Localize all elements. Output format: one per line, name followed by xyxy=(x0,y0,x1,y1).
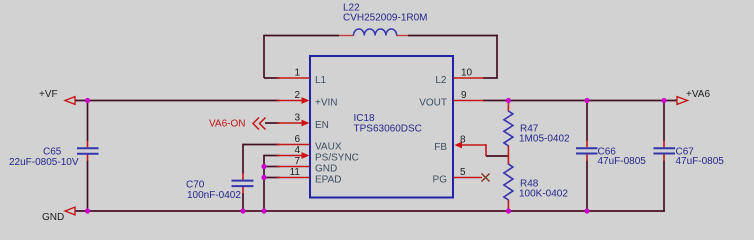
capacitor C70 top lead xyxy=(242,173,244,180)
svg-text:VAUX: VAUX xyxy=(315,142,342,153)
wire EN horizontal xyxy=(265,122,280,124)
junction C65 bottom xyxy=(85,208,90,213)
wire VAUX branch down to C70 xyxy=(242,144,244,174)
wire C67 branch top xyxy=(663,101,665,142)
junction C66 top xyxy=(584,98,589,103)
port +VA6 xyxy=(677,97,688,105)
node VA6-ON chevron xyxy=(253,118,266,130)
wire inductor right to corner xyxy=(408,35,498,37)
pin 8 jog vertical xyxy=(485,144,487,156)
pin 7 stub xyxy=(277,166,310,168)
wire C70 bottom to GND rail xyxy=(242,193,244,211)
resistor R48 top lead xyxy=(507,156,509,165)
capacitor C66 xyxy=(576,148,598,153)
svg-text:100nF-0402: 100nF-0402 xyxy=(187,190,241,201)
inductor L22 right lead xyxy=(396,35,408,37)
svg-text:GND: GND xyxy=(42,212,64,223)
wire L2 loop vertical xyxy=(496,35,498,78)
wire pin1 horizontal xyxy=(264,77,280,79)
junction C67 top xyxy=(661,98,666,103)
wire VAUX horizontal xyxy=(243,144,280,146)
pin 10 stub xyxy=(454,77,484,79)
pin 2 arrowhead xyxy=(302,97,310,104)
svg-text:L1: L1 xyxy=(315,75,327,86)
wire L2 loop to pin 10 xyxy=(483,77,498,79)
pin 6 stub xyxy=(277,144,310,146)
resistor R47 bottom lead xyxy=(507,146,509,157)
wire L1 loop top left horizontal xyxy=(263,35,339,37)
svg-text:L2: L2 xyxy=(435,75,447,86)
wire EPAD pin11 horizontal xyxy=(264,177,280,179)
svg-text:8: 8 xyxy=(460,135,466,146)
svg-text:6: 6 xyxy=(294,134,300,145)
junction R47 top xyxy=(506,98,511,103)
svg-text:1: 1 xyxy=(294,68,300,79)
svg-text:VA6-ON: VA6-ON xyxy=(209,119,246,130)
junction C70 bottom xyxy=(240,208,245,213)
svg-text:2: 2 xyxy=(294,90,300,101)
svg-text:1M05-0402: 1M05-0402 xyxy=(519,134,570,145)
wire VOUT rail xyxy=(483,100,677,102)
svg-text:4: 4 xyxy=(294,145,300,156)
svg-text:7: 7 xyxy=(294,156,300,167)
wire C67 branch bottom xyxy=(663,161,665,212)
junction PS branch GND xyxy=(261,208,266,213)
wire GND pin7 horizontal xyxy=(264,166,280,168)
svg-text:C70: C70 xyxy=(186,180,205,191)
resistor R47 xyxy=(504,111,513,146)
pin 2 stub xyxy=(277,100,303,102)
svg-text:47uF-0805: 47uF-0805 xyxy=(676,156,725,167)
svg-text:PS/SYNC: PS/SYNC xyxy=(315,153,359,164)
pin 3 arrowhead xyxy=(302,120,310,127)
capacitor C66 bottom lead xyxy=(586,154,588,161)
svg-text:CVH252009-1R0M: CVH252009-1R0M xyxy=(343,13,428,24)
svg-text:5: 5 xyxy=(460,167,466,178)
capacitor C66 top lead xyxy=(586,141,588,148)
pin 4 stub xyxy=(277,155,303,157)
svg-text:PG: PG xyxy=(433,175,448,186)
no-connect X on pin 5 xyxy=(482,174,490,182)
wire L1 loop vertical xyxy=(263,36,265,79)
wire PS/SYNC vertical to GND rail xyxy=(263,155,265,211)
inductor L22 xyxy=(354,29,397,36)
wire C66 branch top xyxy=(586,101,588,142)
junction C66 bottom xyxy=(584,208,589,213)
svg-text:9: 9 xyxy=(461,90,467,101)
svg-text:+VF: +VF xyxy=(39,89,58,100)
capacitor C65 top lead xyxy=(87,141,89,148)
svg-text:100K-0402: 100K-0402 xyxy=(519,189,568,200)
svg-text:22uF-0805-10V: 22uF-0805-10V xyxy=(9,157,79,168)
svg-text:+VA6: +VA6 xyxy=(686,89,710,100)
pin 8 stub xyxy=(461,144,486,146)
capacitor C67 bottom lead xyxy=(663,154,665,161)
pin 4 arrowhead xyxy=(302,152,310,159)
resistor R48 xyxy=(504,164,513,200)
junction R48 bottom xyxy=(506,208,511,213)
junction pin11 tap xyxy=(261,175,266,180)
svg-text:FB: FB xyxy=(434,142,447,153)
svg-text:GND: GND xyxy=(315,164,337,175)
pin 9 stub xyxy=(454,100,484,102)
capacitor C65 xyxy=(77,148,99,154)
junction C65 top xyxy=(85,98,90,103)
wire C65 branch bottom xyxy=(87,161,89,212)
op-amp U1 IC18 body xyxy=(310,56,453,198)
wire C65 branch top xyxy=(87,101,89,142)
wire PS/SYNC horizontal xyxy=(264,155,280,157)
svg-text:EPAD: EPAD xyxy=(315,175,342,186)
pin 8 arrowhead xyxy=(455,142,463,149)
capacitor C67 top lead xyxy=(663,141,665,148)
wire FB jog horizontal xyxy=(486,155,508,157)
wire +VF rail xyxy=(75,100,280,102)
pin 1 stub xyxy=(277,77,310,79)
inductor L22 left lead xyxy=(339,35,354,37)
svg-text:10: 10 xyxy=(461,68,473,79)
wire C66 branch bottom xyxy=(586,161,588,212)
svg-text:11: 11 xyxy=(290,167,301,178)
svg-text:VOUT: VOUT xyxy=(419,98,447,109)
wire GND rail xyxy=(75,210,665,212)
pin 11 stub xyxy=(277,177,310,179)
capacitor C67 xyxy=(654,148,676,153)
pin 5 stub xyxy=(454,177,483,179)
svg-text:TPS63060DSC: TPS63060DSC xyxy=(354,124,422,135)
svg-text:3: 3 xyxy=(294,113,300,124)
resistor R48 bottom lead xyxy=(507,200,509,212)
svg-text:EN: EN xyxy=(315,120,329,131)
ground port GND xyxy=(65,207,75,215)
port +VF xyxy=(65,97,75,105)
svg-text:+VIN: +VIN xyxy=(315,98,338,109)
pin 3 stub xyxy=(277,122,303,124)
capacitor C70 xyxy=(232,181,254,187)
svg-text:C65: C65 xyxy=(43,147,62,158)
capacitor C65 bottom lead xyxy=(87,155,89,161)
junction pin7 tap xyxy=(261,164,266,169)
capacitor C70 bottom lead xyxy=(242,187,244,194)
resistor R47 top lead xyxy=(507,101,509,112)
svg-text:IC18: IC18 xyxy=(354,113,376,124)
svg-text:47uF-0805: 47uF-0805 xyxy=(598,156,647,167)
